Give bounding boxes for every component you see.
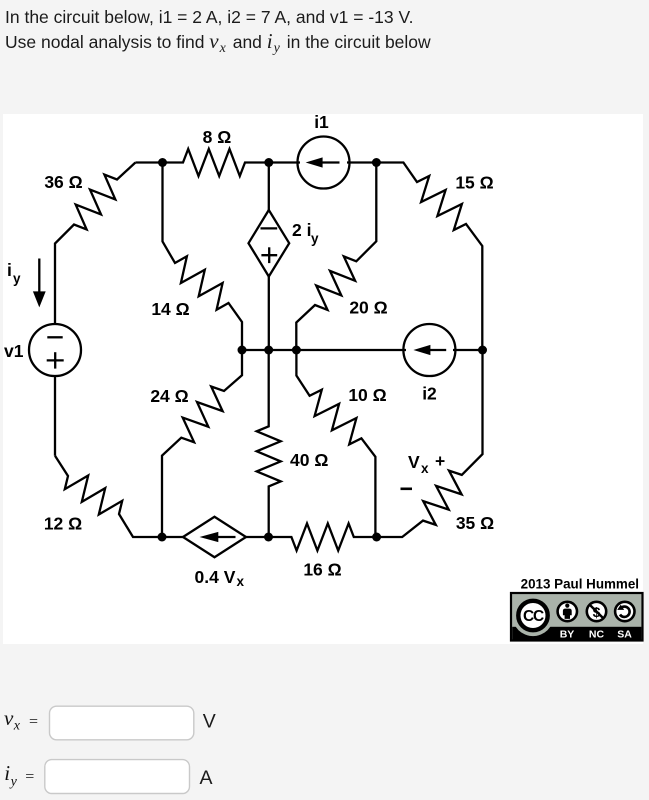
svg-text:V: V <box>203 710 216 732</box>
svg-text:2 i: 2 i <box>292 220 311 240</box>
svg-text:x: x <box>13 719 21 734</box>
svg-text:CC: CC <box>523 608 544 625</box>
wire 2iy down to node M2 <box>268 277 270 351</box>
svg-text:14 Ω: 14 Ω <box>151 299 189 319</box>
node M1 <box>238 346 247 355</box>
dependent source 0.4Vx <box>183 517 246 557</box>
node M3 <box>292 346 301 355</box>
current source i1 <box>298 137 350 189</box>
svg-text:y: y <box>311 231 319 246</box>
svg-text:i: i <box>4 761 10 785</box>
svg-text:8 Ω: 8 Ω <box>203 127 232 147</box>
wire 0.4Vx to B2 <box>246 536 269 538</box>
current source i2 <box>403 324 455 376</box>
svg-text:10 Ω: 10 Ω <box>348 385 386 405</box>
node B3 <box>372 533 381 542</box>
voltage source V1 <box>29 324 81 376</box>
answer input vx <box>50 706 194 740</box>
svg-text:i: i <box>7 260 12 280</box>
node A top-left <box>158 158 167 167</box>
resistor R8 40Ω <box>257 350 281 537</box>
resistor R3 12Ω <box>55 456 162 537</box>
svg-text:=: = <box>29 713 38 730</box>
resistor R4 14Ω <box>163 163 243 351</box>
resistor R2 36Ω <box>55 163 135 324</box>
wire node B down to 2iy <box>268 163 270 211</box>
svg-text:35 Ω: 35 Ω <box>456 513 494 533</box>
svg-text:v: v <box>4 706 14 730</box>
svg-text:x: x <box>421 461 429 476</box>
wire i1 to node C <box>347 161 376 163</box>
svg-text:20 Ω: 20 Ω <box>349 298 387 318</box>
wire middle row <box>242 349 406 351</box>
svg-text:A: A <box>200 767 213 789</box>
CC NC icon <box>587 602 606 621</box>
node M4 <box>478 346 487 355</box>
current arrow iy <box>38 259 40 296</box>
CC badge background <box>511 593 643 641</box>
label Vx minus <box>401 487 413 490</box>
svg-text:y: y <box>9 775 18 790</box>
node B1 <box>158 533 167 542</box>
CC BY icon <box>558 602 577 621</box>
resistor R7 15Ω <box>376 163 482 351</box>
answer input iy <box>45 760 190 794</box>
svg-text:36 Ω: 36 Ω <box>44 172 82 192</box>
node C top-right <box>372 158 381 167</box>
wire B1 to 0.4Vx <box>162 536 184 538</box>
svg-text:BY: BY <box>560 629 575 641</box>
CC logo circle <box>512 595 553 636</box>
resistor R1 8Ω <box>163 149 269 176</box>
resistor R10 35Ω <box>377 350 483 537</box>
svg-text:i1: i1 <box>314 112 329 132</box>
node B2 <box>264 533 273 542</box>
svg-text:2013 Paul Hummel: 2013 Paul Hummel <box>521 577 639 592</box>
svg-text:x: x <box>237 574 245 589</box>
node B top-mid <box>264 158 273 167</box>
resistor R11 16Ω <box>269 524 377 551</box>
dependent source 2iy <box>249 210 290 277</box>
resistor R5 24Ω <box>162 350 242 537</box>
svg-text:40 Ω: 40 Ω <box>290 450 328 470</box>
wire node B to i1 <box>269 161 300 163</box>
svg-text:y: y <box>13 271 21 286</box>
svg-text:12 Ω: 12 Ω <box>44 514 82 534</box>
svg-text:16 Ω: 16 Ω <box>303 560 341 580</box>
resistor R9 10Ω <box>296 350 375 537</box>
svg-text:+: + <box>435 451 445 471</box>
resistor R6 20Ω <box>296 163 376 351</box>
svg-text:SA: SA <box>617 629 632 641</box>
svg-text:=: = <box>25 768 34 785</box>
svg-text:NC: NC <box>589 629 605 641</box>
wire v1 bottom lead <box>54 377 56 456</box>
svg-text:v1: v1 <box>4 341 24 361</box>
svg-text:24 Ω: 24 Ω <box>150 386 188 406</box>
svg-text:i2: i2 <box>422 384 437 404</box>
svg-text:V: V <box>408 452 420 472</box>
wire top-left to node A <box>135 161 162 163</box>
node M2 <box>264 346 273 355</box>
wire i2 to node M4 <box>453 349 483 351</box>
svg-text:15 Ω: 15 Ω <box>455 173 493 193</box>
CC SA icon <box>615 602 634 621</box>
svg-text:0.4 V: 0.4 V <box>195 567 236 587</box>
